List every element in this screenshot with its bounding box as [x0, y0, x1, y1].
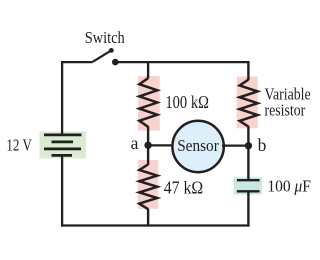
- variable resistor zigzag: [240, 80, 258, 127]
- wire left vertical upper (corner to battery): [61, 61, 63, 135]
- svg-text:100 kΩ: 100 kΩ: [165, 92, 209, 112]
- resistor R1 pink band (100 kΩ): [138, 76, 160, 131]
- resistor R2 zigzag 47 kΩ: [139, 164, 157, 209]
- variable resistor pink band: [237, 77, 258, 129]
- wire 100k to node a to 47k: [147, 126, 149, 165]
- wire node a to sensor: [148, 144, 174, 146]
- resistor R2 pink band (47 kΩ): [138, 160, 158, 209]
- svg-text:12 V: 12 V: [6, 136, 32, 155]
- wire top horizontal (switch to top-right corner): [115, 61, 249, 63]
- sensor circle U1: [172, 121, 223, 172]
- switch arm tip dot: [109, 48, 114, 53]
- node a dot: [144, 142, 151, 149]
- switch arm: [93, 51, 111, 62]
- wire bottom horizontal: [61, 224, 250, 226]
- svg-text:Switch: Switch: [85, 28, 126, 47]
- resistor R1 zigzag 100 kΩ: [139, 78, 157, 127]
- capacitor C1 plates: [237, 180, 260, 191]
- svg-text:Sensor: Sensor: [177, 136, 219, 155]
- node b dot: [245, 142, 252, 149]
- wire sensor to node b: [222, 144, 248, 146]
- switch junction dot: [112, 59, 119, 66]
- svg-text:47 kΩ: 47 kΩ: [164, 177, 204, 197]
- capacitor teal band: [234, 177, 262, 194]
- svg-text:resistor: resistor: [265, 100, 306, 119]
- wire left vertical lower (battery to bottom corner): [61, 155, 63, 226]
- wire middle branch top (top wire to 100k): [147, 61, 149, 79]
- wire 47k to bottom wire: [147, 209, 149, 227]
- wire top-left horizontal (corner to switch pivot): [61, 61, 93, 63]
- svg-text:b: b: [258, 135, 267, 155]
- battery green band: [40, 132, 87, 159]
- wire capacitor to bottom corner: [247, 192, 249, 227]
- battery B1 plates: [44, 135, 82, 156]
- svg-text:100 μF: 100 μF: [267, 176, 311, 195]
- wire right vertical upper (corner to variable resistor): [247, 61, 249, 80]
- wire variable resistor to node b to capacitor: [247, 126, 249, 180]
- svg-text:a: a: [131, 133, 139, 153]
